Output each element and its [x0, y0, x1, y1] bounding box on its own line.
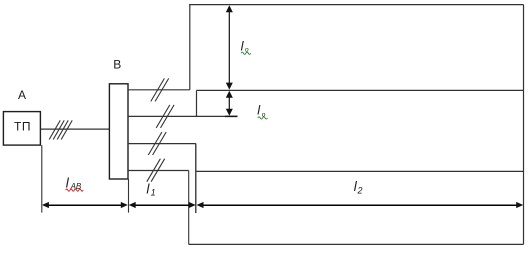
svg-text:В: В	[113, 58, 121, 72]
feeder 1 slash marks	[151, 78, 169, 101]
loop side wire down	[188, 171, 190, 245]
dimension arrow l0 lower	[226, 91, 233, 116]
extension line below TP	[41, 145, 43, 213]
feeder 3 wire	[128, 143, 196, 145]
svg-text:ТП: ТП	[14, 120, 31, 134]
return wire of top loop	[197, 89, 524, 91]
feeder 2 slash marks	[156, 105, 174, 128]
riser wire left	[189, 5, 191, 90]
right side wire	[523, 5, 525, 245]
dimension arrow l_AB	[42, 202, 128, 208]
feeder 4 wire	[128, 170, 189, 172]
feeder 1 wire	[128, 89, 190, 91]
wire slash marks (4)	[49, 120, 72, 139]
bus B (distribution cabinet)	[109, 84, 128, 179]
bottom loop top wire	[196, 170, 524, 172]
red squiggle under l_AB	[66, 189, 84, 191]
dimension arrow l0 upper	[226, 5, 233, 89]
top loop wire	[189, 4, 523, 6]
svg-text:1: 1	[151, 187, 156, 197]
green squiggle under l0 lower	[258, 117, 268, 119]
svg-text:2: 2	[357, 185, 363, 195]
drop wire feeder 3 / extension	[195, 144, 197, 214]
drop wire to feeder 2	[196, 90, 198, 116]
extension line below B	[128, 179, 130, 213]
box A (TP substation)	[3, 112, 40, 146]
dimension arrow l2	[197, 202, 524, 208]
dimension arrow l1	[129, 202, 196, 208]
wire TP to B	[40, 128, 109, 130]
feeder 2 wire	[128, 115, 238, 117]
feeder 4 slash marks	[147, 159, 165, 182]
bottom loop bottom wire	[189, 243, 524, 245]
svg-text:А: А	[18, 88, 26, 102]
green squiggle under l0 upper	[241, 52, 251, 54]
feeder 3 slash marks	[148, 132, 166, 155]
